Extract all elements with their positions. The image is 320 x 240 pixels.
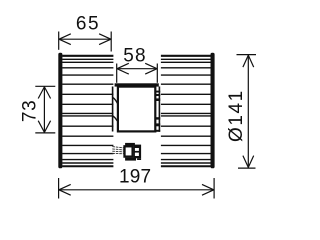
connector top tab	[125, 143, 135, 146]
svg-text:Ø141: Ø141	[226, 89, 247, 142]
dimension 73: extension ticks	[35, 86, 55, 133]
dimension 197: extension lines	[59, 178, 215, 199]
dimension diameter 141: extension ticks	[237, 55, 257, 169]
motor left support fillets	[113, 98, 117, 121]
svg-text:58: 58	[123, 46, 147, 67]
connector terminal block	[134, 145, 142, 160]
right fan cage inner edge	[158, 87, 160, 132]
left fan cage inner edge	[112, 87, 114, 132]
dimension 73: dimension line with arrows	[38, 87, 50, 133]
left fan cage end bar	[58, 53, 62, 169]
svg-text:65: 65	[76, 13, 100, 34]
motor right bracket rungs	[155, 91, 160, 132]
connector bottom tab	[125, 158, 136, 161]
wire bundle	[112, 147, 124, 154]
dimension 65: dimension line with arrows	[59, 34, 111, 45]
svg-text:197: 197	[119, 167, 151, 188]
dimension diameter 141: dimension line with arrows	[243, 55, 254, 168]
svg-text:73: 73	[19, 100, 40, 122]
right fan cage end bar	[211, 53, 215, 169]
dimension 58: extension lines	[117, 64, 158, 83]
motor mounting plate	[115, 83, 159, 86]
dimension 197: dimension line with arrows	[59, 184, 215, 195]
dimension 58: dimension line with arrows	[117, 63, 158, 74]
dimension 65: extension lines	[59, 32, 111, 52]
left fan cage ribs	[62, 56, 113, 167]
right fan cage ribs	[161, 56, 211, 167]
connector housing	[125, 146, 133, 156]
motor body	[118, 87, 155, 132]
